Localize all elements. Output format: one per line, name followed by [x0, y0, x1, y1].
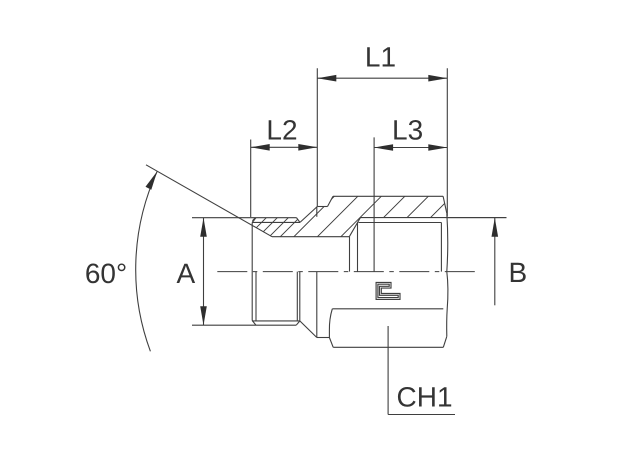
hex chamfer bottom-right — [443, 336, 447, 347]
female thread crest line (with B extension) — [360, 217, 506, 219]
centerline — [217, 271, 478, 273]
bore wall — [272, 236, 349, 238]
L2 extension line left — [250, 140, 252, 218]
collar flat top — [317, 206, 327, 208]
female thread entry chamfer — [349, 218, 360, 237]
svg-text:60°: 60° — [85, 258, 127, 289]
B extension line — [447, 217, 507, 219]
svg-text:B: B — [508, 257, 527, 288]
male thread end line 1 — [296, 272, 298, 321]
female thread end edge — [440, 223, 442, 272]
svg-text:L2: L2 — [266, 114, 297, 145]
CH1 underline — [388, 414, 455, 416]
L1 arrow left — [317, 75, 336, 82]
shoulder cone bottom — [300, 321, 317, 338]
shoulder face top — [316, 207, 318, 217]
L3 arrow left — [374, 144, 393, 151]
60 deg arc — [136, 171, 157, 351]
collar ledge bottom — [317, 337, 330, 339]
hex chamfer top-left — [328, 196, 334, 206]
A arrow bottom — [200, 306, 207, 325]
body left face — [251, 223, 253, 321]
hex corner edge bottom-left — [329, 309, 332, 338]
A dimension line — [203, 218, 205, 325]
60 deg arc arrow — [146, 171, 158, 189]
male thread end line 2 — [299, 272, 301, 321]
hex chamfer bottom-left — [329, 338, 333, 348]
svg-text:L3: L3 — [392, 114, 423, 145]
male thread chamfer edge bottom — [255, 272, 257, 321]
hex top edge — [333, 195, 443, 197]
hex bottom edge — [333, 346, 443, 348]
male thread runout bottom — [296, 321, 300, 325]
B dimension line — [494, 218, 496, 305]
male thread root top — [252, 221, 300, 223]
male thread runout top — [297, 218, 301, 223]
CH1 leader line — [387, 326, 389, 415]
svg-text:CH1: CH1 — [397, 382, 453, 413]
collar face bottom — [316, 272, 318, 338]
shoulder cone top — [300, 207, 317, 223]
60 deg cone line extended — [146, 165, 272, 237]
male thread root bottom — [252, 320, 300, 322]
L1 arrow right — [428, 75, 447, 82]
logo mark — [376, 282, 400, 299]
bore end edge — [349, 237, 351, 272]
L3 dimension line — [374, 147, 447, 149]
right face upper — [446, 213, 449, 271]
right face lower — [447, 272, 448, 337]
svg-text:A: A — [176, 258, 195, 289]
L1 extension line right — [446, 68, 448, 216]
face chamfer bottom — [252, 321, 256, 326]
A arrow top — [200, 218, 207, 237]
L2 dimension line — [251, 146, 318, 148]
hex chamfer top-right — [443, 196, 447, 213]
L2 arrow right — [298, 144, 317, 151]
male thread crest top (with A extension line) — [192, 217, 297, 219]
female thread root line — [359, 222, 442, 224]
L3 extension line left — [373, 137, 375, 271]
L3 arrow right — [428, 144, 447, 151]
svg-text:L1: L1 — [365, 42, 396, 73]
male thread crest bottom (with A extension line) — [192, 324, 296, 326]
L2 arrow left — [251, 144, 270, 151]
hatching body section — [241, 190, 459, 290]
B arrow — [492, 218, 499, 237]
thread start face — [357, 223, 359, 272]
L1 dimension line — [317, 77, 447, 79]
hatching male-end section — [183, 190, 458, 290]
face chamfer top — [252, 218, 256, 223]
L1 extension line left — [316, 68, 318, 206]
hex face line — [332, 308, 443, 310]
